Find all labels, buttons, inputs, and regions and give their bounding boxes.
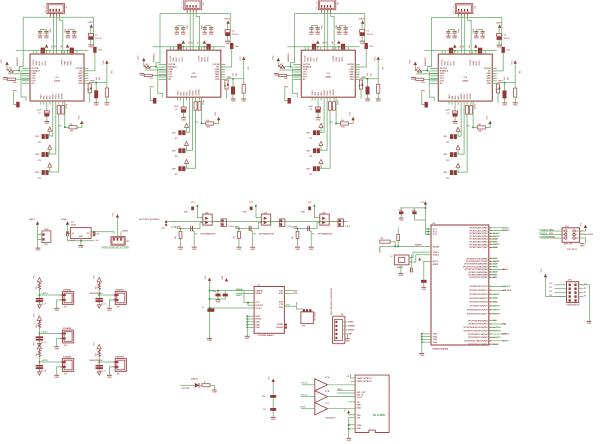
- svg-text:X2: X2: [201, 2, 203, 4]
- decoupling capacitor C42: [453, 31, 457, 33]
- svg-text:VCC: VCC: [421, 202, 426, 204]
- ground: [360, 40, 365, 42]
- ic left pin stubs: [22, 67, 30, 69]
- wire c5 down: [221, 49, 232, 67]
- wire vref row: [89, 82, 107, 84]
- crystal Q1 16MHz: [395, 255, 409, 265]
- wire connector pin 3: [327, 13, 329, 50]
- load caps: [409, 268, 411, 273]
- wire vref row: [360, 78, 378, 80]
- svg-text:MS3: MS3: [35, 172, 39, 174]
- svg-text:3V3OUT: 3V3OUT: [255, 305, 264, 307]
- ground: [3, 76, 8, 78]
- decoupling capacitor C32: [316, 27, 320, 29]
- svg-text:OUT1A: OUT1A: [169, 55, 172, 62]
- svg-text:JP3: JP3: [64, 373, 67, 375]
- svg-text:13: 13: [490, 334, 492, 336]
- diode D1: [94, 90, 98, 98]
- wire pin2 gnd: [57, 300, 60, 308]
- svg-text:Z-DIR: Z-DIR: [493, 247, 499, 249]
- pad JP30: [288, 98, 291, 104]
- svg-text:D0: D0: [549, 283, 551, 285]
- connector pin stubs: [60, 333, 62, 335]
- wire cap right to gnd: [193, 231, 195, 247]
- wire vref row: [226, 78, 244, 80]
- svg-text:U20: U20: [205, 212, 208, 214]
- wire jumper 2: [185, 101, 193, 151]
- svg-text:VBB1: VBB1: [36, 61, 38, 66]
- pull-up resistor R T2 4k7: [38, 320, 40, 328]
- wire resistor stem: [238, 229, 240, 232]
- wire r3 bottom: [106, 97, 108, 103]
- ISP header JP12: [562, 228, 580, 243]
- svg-text:VDD: VDD: [486, 83, 491, 85]
- svg-text:OPTOENDSTOP: OPTOENDSTOP: [200, 234, 216, 236]
- sense resistor RS2A: [177, 44, 181, 50]
- decoupling capacitor C43: [474, 31, 478, 33]
- svg-text:GND: GND: [433, 334, 438, 336]
- svg-text:JP1: JP1: [446, 142, 449, 144]
- svg-text:MOSI: MOSI: [493, 272, 499, 274]
- svg-text:RSENSE2: RSENSE2: [288, 53, 290, 62]
- mini supply arrow: [361, 83, 364, 86]
- filter capacitor H2: [96, 365, 103, 367]
- ground: [241, 98, 246, 100]
- voltage regulator IC5 78L05: [71, 228, 92, 239]
- svg-text:RESET: RESET: [415, 245, 422, 247]
- resistor R41 zigzag: [415, 69, 422, 71]
- svg-text:RXD: RXD: [293, 290, 298, 292]
- wire connector pin 4: [59, 17, 62, 54]
- svg-text:GND: GND: [72, 38, 77, 40]
- svg-text:SEN2: SEN2: [68, 61, 70, 66]
- wire jumper 1: [456, 105, 461, 137]
- resistor R22: [144, 74, 152, 76]
- svg-text:(PCINT5/ADC5)PA5: (PCINT5/ADC5)PA5: [469, 241, 488, 244]
- resistor R24: [225, 80, 228, 89]
- svg-text:MS2: MS2: [455, 96, 457, 100]
- supply arrow VBB left: [182, 40, 185, 43]
- svg-text:4: 4: [453, 11, 454, 14]
- svg-text:MPG: MPG: [150, 87, 155, 89]
- pull-up resistor R H1 4k7: [98, 282, 100, 290]
- sd card detect wires: [351, 377, 356, 379]
- pull-up resistor R T3 4k7: [38, 349, 40, 357]
- svg-text:MISO: MISO: [337, 389, 342, 391]
- svg-text:10k: 10k: [478, 124, 481, 126]
- wire opto pin2: [194, 223, 203, 229]
- wire opto out: [329, 221, 339, 223]
- svg-text:GND: GND: [36, 250, 41, 252]
- svg-text:(PCINT19/TMS)PC3: (PCINT19/TMS)PC3: [469, 298, 488, 300]
- svg-text:Z-ES: Z-ES: [345, 226, 350, 228]
- wire ms junction: [202, 97, 206, 123]
- svg-text:VMOT: VMOT: [496, 22, 503, 24]
- capacitor C26 22uF: [181, 107, 186, 109]
- endstop connector JP22: [339, 220, 341, 223]
- wire pin2 gnd: [57, 367, 60, 375]
- ic top pin stubs: [170, 47, 172, 51]
- wire cap pair link left: [311, 25, 317, 27]
- ground: [347, 437, 352, 439]
- svg-text:VBB2: VBB2: [65, 61, 67, 66]
- svg-text:NC: NC: [32, 83, 35, 85]
- decoupling capacitor C33: [337, 27, 341, 29]
- svg-text:VCC: VCC: [350, 111, 352, 116]
- svg-text:(PCINT14/MISO)PB6: (PCINT14/MISO)PB6: [468, 274, 488, 277]
- supply arrow VCC left: [414, 62, 417, 65]
- svg-text:SEN2: SEN2: [476, 61, 478, 66]
- svg-text:GND: GND: [274, 75, 279, 77]
- svg-text:4: 4: [181, 7, 182, 10]
- svg-text:ROSC: ROSC: [464, 93, 466, 99]
- svg-text:GND: GND: [360, 43, 365, 45]
- svg-text:GND: GND: [107, 377, 112, 379]
- supply arrow VIN: [90, 24, 93, 27]
- svg-text:VSS2: VSS2: [357, 425, 362, 427]
- svg-text:X-STEP: X-STEP: [493, 294, 501, 296]
- svg-text:RSENSE2: RSENSE2: [154, 53, 156, 62]
- svg-text:GND: GND: [376, 101, 381, 103]
- svg-text:100n: 100n: [412, 210, 416, 212]
- svg-text:4k7: 4k7: [35, 353, 38, 356]
- svg-text:10k: 10k: [206, 120, 209, 122]
- wire to connector: [99, 361, 113, 363]
- ic bottom pin stubs: [448, 101, 450, 105]
- diode D3: [366, 87, 370, 95]
- buffer input wires: [302, 384, 315, 386]
- wire resistor to gnd: [180, 239, 182, 247]
- svg-text:X3: X3: [336, 2, 338, 4]
- svg-text:SD-CS: SD-CS: [502, 269, 509, 271]
- mini supply arrow avcc: [418, 258, 421, 261]
- caps vbus: [215, 294, 220, 297]
- wire jumper 3: [185, 114, 196, 168]
- svg-text:CP2: CP2: [42, 62, 44, 66]
- svg-text:(PCINT7/ADC7)PA7: (PCINT7/ADC7)PA7: [469, 246, 488, 249]
- svg-text:(PCINT0/ADC0)PA0: (PCINT0/ADC0)PA0: [469, 227, 488, 230]
- vcc bus left: [424, 205, 426, 235]
- bypass jumper JP11: [165, 221, 167, 223]
- svg-text:NC: NC: [303, 79, 306, 81]
- agnd arrow: [38, 372, 42, 375]
- svg-text:VCC: VCC: [249, 202, 254, 204]
- microcontroller IC6 ATmega644: [431, 225, 489, 345]
- supply arrow VCC left: [277, 58, 280, 61]
- ground: [54, 374, 59, 376]
- svg-text:(PCINT24/RXD0)PD0: (PCINT24/RXD0)PD0: [468, 319, 488, 322]
- ic bottom pin stubs: [40, 101, 42, 105]
- ground: [107, 307, 112, 309]
- connector T3: [63, 359, 74, 372]
- svg-text:10k: 10k: [341, 120, 344, 122]
- svg-text:GND: GND: [422, 289, 427, 291]
- svg-text:SCLK: SCLK: [357, 397, 363, 399]
- series resistor R21b: [250, 207, 253, 211]
- svg-text:100uF: 100uF: [70, 240, 76, 242]
- jumper JP22 MS2: [178, 148, 181, 153]
- wire r3 bottom: [243, 93, 245, 99]
- connector pin stubs: [458, 14, 460, 17]
- svg-text:CP2: CP2: [314, 58, 316, 62]
- ground: [237, 246, 242, 248]
- ic left pin stubs: [159, 64, 167, 66]
- jumper JP31 MS1: [313, 130, 316, 135]
- svg-text:0.2 uF: 0.2 uF: [41, 371, 47, 373]
- wire to bottom cap: [183, 101, 185, 107]
- stepper motor output connector X3: [318, 0, 336, 10]
- stepper driver channel 3: [273, 0, 384, 176]
- svg-text:MS2: MS2: [172, 150, 176, 152]
- supply arrow VBB left: [453, 44, 456, 47]
- usb pin wires: [342, 321, 347, 323]
- wire to bottom cap: [317, 101, 319, 107]
- connector pin stubs: [60, 294, 62, 296]
- svg-text:39: 39: [490, 233, 492, 235]
- svg-text:MS3: MS3: [307, 168, 311, 170]
- svg-text:TXLED: TXLED: [276, 324, 283, 326]
- svg-text:23: 23: [490, 302, 492, 304]
- svg-text:1: 1: [453, 6, 454, 8]
- svg-text:(PCINT13/MOSI)PB5: (PCINT13/MOSI)PB5: [468, 272, 488, 274]
- wire connector pin 3: [192, 13, 194, 50]
- svg-text:100n: 100n: [149, 78, 153, 80]
- wire enable row: [8, 73, 30, 75]
- svg-text:CARD_DETECT1: CARD_DETECT1: [357, 377, 372, 380]
- supply arrow VBB right: [474, 44, 477, 47]
- svg-text:JP1: JP1: [309, 138, 312, 140]
- svg-text:OUT1A: OUT1A: [304, 55, 307, 62]
- resistor R26: [198, 102, 201, 111]
- wire jumper 1: [48, 105, 53, 137]
- bulk electrolytic capacitor C10 100uF: [88, 34, 93, 37]
- sd gnd chain: [348, 418, 350, 438]
- svg-text:E-EN: E-EN: [493, 241, 498, 243]
- svg-text:GND: GND: [66, 38, 71, 40]
- wire opto pin2: [311, 223, 320, 229]
- svg-text:USBDP: USBDP: [236, 295, 243, 297]
- wire left feeder: [291, 13, 295, 66]
- wire opto feed: [198, 205, 203, 218]
- svg-text:X2: X2: [341, 314, 343, 316]
- svg-text:100n: 100n: [370, 46, 374, 48]
- svg-text:VREF: VREF: [90, 81, 95, 83]
- svg-text:VDD1: VDD1: [454, 61, 456, 66]
- svg-text:VREG: VREG: [449, 94, 451, 100]
- svg-text:GND: GND: [433, 339, 438, 341]
- svg-text:VREG: VREG: [41, 94, 43, 100]
- svg-text:TXD: TXD: [293, 293, 297, 295]
- usb-serial IC7 FT232RL: [254, 287, 284, 334]
- wire jumper 2: [319, 101, 327, 151]
- svg-text:GND: GND: [203, 34, 208, 36]
- svg-text:GND: GND: [587, 323, 592, 325]
- wire resistor to junction: [38, 329, 40, 344]
- wire cap to gnd: [361, 36, 363, 41]
- svg-text:HEATER2: HEATER2: [115, 356, 124, 359]
- svg-text:SENSE: SENSE: [470, 92, 472, 99]
- supply arrow VCC isp: [584, 225, 587, 228]
- svg-text:VDD: VDD: [78, 83, 83, 85]
- svg-text:MS1: MS1: [452, 96, 454, 100]
- decoupling capacitor C31: [309, 27, 313, 29]
- svg-text:VDD1: VDD1: [317, 57, 319, 62]
- wire connector pin 2: [189, 13, 191, 50]
- bulk electrolytic capacitor C20 100uF: [225, 30, 230, 33]
- wire r7 to vcc: [77, 124, 82, 127]
- svg-text:VBB2: VBB2: [201, 57, 203, 62]
- svg-text:L1: L1: [202, 307, 204, 309]
- svg-text:C1: C1: [95, 34, 97, 36]
- svg-text:JP1: JP1: [38, 142, 41, 144]
- wire isp gnd: [576, 238, 585, 244]
- wire connector pin 1 to bus: [458, 16, 460, 19]
- opto-isolator U22: [320, 214, 329, 225]
- svg-text:JP1: JP1: [175, 138, 178, 140]
- capacitor C15: [93, 47, 96, 53]
- svg-text:OUT2A: OUT2A: [197, 55, 200, 62]
- supply arrow VCC left: [142, 58, 145, 61]
- svg-text:GND: GND: [580, 245, 585, 247]
- svg-text:SENSE: SENSE: [62, 92, 64, 99]
- pad JP20: [153, 98, 156, 104]
- svg-text:VREG: VREG: [71, 60, 73, 66]
- ground: [250, 246, 255, 248]
- svg-text:16: 16: [490, 344, 492, 346]
- wire sense row: [235, 228, 253, 230]
- svg-text:100n: 100n: [98, 50, 102, 52]
- ground: [178, 246, 183, 248]
- svg-text:ATMEGA644PA: ATMEGA644PA: [433, 348, 449, 351]
- svg-text:SENSE: SENSE: [198, 89, 200, 96]
- wire opto out: [271, 221, 281, 223]
- wire connector pin 4: [331, 13, 334, 50]
- svg-text:MS3: MS3: [172, 168, 176, 170]
- wire opto pin2: [253, 223, 261, 229]
- ground: [274, 73, 279, 75]
- svg-text:(PCINT17/SDA)PC1: (PCINT17/SDA)PC1: [469, 289, 488, 292]
- svg-text:C4: C4: [447, 112, 449, 115]
- wire sense row: [294, 228, 312, 230]
- supply arrow VCC right: [242, 57, 245, 60]
- capacitor C35: [365, 43, 368, 49]
- svg-text:RESET: RESET: [549, 237, 556, 239]
- svg-text:AREF: AREF: [433, 263, 439, 266]
- svg-text:XTAL2: XTAL2: [433, 254, 440, 257]
- ground: [271, 416, 276, 418]
- svg-text:H2-PWM: H2-PWM: [493, 330, 501, 332]
- svg-text:IC7B: IC7B: [325, 391, 330, 393]
- svg-text:R35: R35: [341, 127, 344, 129]
- svg-text:VREG: VREG: [207, 56, 209, 62]
- wire sense rail: [287, 46, 360, 48]
- svg-text:GND: GND: [399, 275, 404, 277]
- resistor R23: [242, 84, 245, 93]
- svg-text:GND: GND: [255, 327, 260, 329]
- svg-text:R15: R15: [70, 130, 73, 132]
- stepper motor output connector X4: [455, 4, 473, 14]
- diode D4: [503, 90, 507, 98]
- svg-text:(PCINT15/SCK)PB7: (PCINT15/SCK)PB7: [469, 277, 488, 279]
- svg-text:25: 25: [490, 309, 492, 311]
- wire resistor to junction: [151, 66, 156, 68]
- wire connector pin 3: [464, 17, 466, 54]
- svg-text:AVR_ISP: AVR_ISP: [564, 243, 573, 246]
- svg-text:(PCINT8/XCK0/T0)PB0: (PCINT8/XCK0/T0)PB0: [466, 258, 488, 260]
- wire diode bottom: [504, 98, 506, 102]
- svg-text:CTS: CTS: [279, 304, 284, 306]
- wire cap pair link right: [68, 29, 74, 31]
- ground: [453, 121, 458, 123]
- svg-text:4k7: 4k7: [95, 353, 98, 356]
- ic left pin stubs: [430, 67, 438, 69]
- svg-text:GND: GND: [502, 105, 507, 107]
- svg-text:(PCINT1/ADC1)PA1: (PCINT1/ADC1)PA1: [469, 229, 488, 232]
- svg-text:(PCINT29/OC1A)PD5: (PCINT29/OC1A)PD5: [468, 336, 488, 339]
- wire rosc bottom: [329, 110, 331, 114]
- resistor R25: [194, 102, 197, 111]
- driver IC3 A4983: [301, 50, 355, 97]
- svg-text:JP3: JP3: [175, 174, 178, 176]
- wire cap to gnd: [498, 40, 500, 45]
- svg-text:RESET: RESET: [189, 89, 191, 96]
- svg-text:GND: GND: [44, 38, 49, 40]
- wire connector pin 4: [196, 13, 199, 50]
- jumper JP13 MS3: [42, 170, 45, 175]
- svg-text:Y-DIR: Y-DIR: [493, 264, 499, 266]
- wire lower link: [21, 71, 26, 102]
- svg-text:MS2: MS2: [318, 92, 320, 96]
- svg-text:9: 9: [490, 320, 491, 322]
- mini supply arrow: [226, 83, 229, 86]
- wire to connector: [39, 294, 60, 296]
- svg-text:GND: GND: [216, 302, 221, 304]
- svg-text:R25: R25: [207, 127, 210, 129]
- wire pin2 gnd: [57, 338, 60, 346]
- svg-text:IC7C: IC7C: [325, 403, 330, 405]
- svg-text:GND: GND: [309, 249, 314, 251]
- wire c5 down: [84, 53, 95, 71]
- svg-text:SEN1: SEN1: [311, 57, 313, 62]
- wire exp vcc: [546, 277, 567, 296]
- svg-text:JP2: JP2: [116, 373, 119, 375]
- svg-text:10k: 10k: [247, 67, 249, 70]
- svg-text:100 uF: 100 uF: [232, 34, 239, 36]
- svg-text:USB5V: USB5V: [122, 230, 129, 232]
- svg-text:10k: 10k: [70, 124, 73, 126]
- wire caps rail: [210, 290, 227, 292]
- bulk electrolytic capacitor C30 100uF: [360, 30, 365, 33]
- svg-text:D1: D1: [549, 287, 551, 289]
- wire to connector: [39, 361, 60, 363]
- svg-text:GND: GND: [241, 101, 246, 103]
- svg-text:PWR: PWR: [44, 229, 49, 231]
- svg-text:GND: GND: [316, 119, 321, 121]
- filter capacitor T1: [36, 298, 43, 300]
- svg-text:MPG: MPG: [284, 87, 289, 89]
- svg-text:E-STEP: E-STEP: [493, 236, 501, 238]
- aref cap: [421, 280, 427, 283]
- ic top pin stubs: [304, 47, 306, 51]
- svg-text:(PCINT26/RXD1/INT0)PD2: (PCINT26/RXD1/INT0)PD2: [463, 327, 488, 329]
- ground: [245, 335, 250, 337]
- jumper JP43 MS3: [450, 170, 453, 175]
- svg-text:GND: GND: [452, 38, 457, 40]
- svg-text:21: 21: [490, 294, 492, 296]
- svg-text:VCC: VCC: [410, 59, 412, 64]
- svg-text:SCK: SCK: [549, 233, 554, 235]
- svg-text:VREG/USB SELECTOR: VREG/USB SELECTOR: [102, 247, 130, 250]
